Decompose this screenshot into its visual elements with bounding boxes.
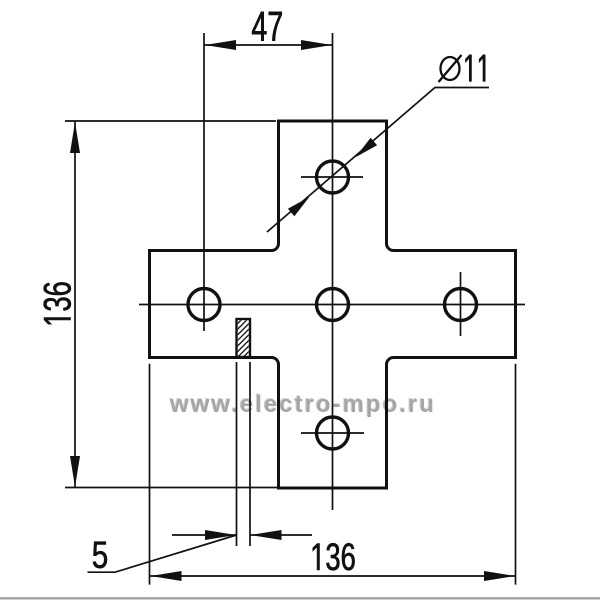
dia symbol: [441, 57, 460, 80]
arrow 47 right: [301, 40, 332, 50]
dimension value 136 vertical: [44, 282, 71, 324]
extension bottom left: [65, 487, 277, 489]
centerline left hole / extension 47: [203, 33, 205, 331]
arrow 136 left bottom: [70, 456, 80, 487]
dim line 47: [204, 44, 333, 46]
extension bottom dim left: [149, 364, 151, 585]
bottom grey border: [0, 597, 600, 599]
arrow 136 bottom left: [151, 571, 182, 581]
arrow 47 left: [205, 40, 236, 50]
centerline horizontal through holes: [139, 304, 525, 306]
extension lines slot 5: [236, 362, 238, 546]
svg-text:www.electro-mpo.ru: www.electro-mpo.ru: [169, 391, 436, 418]
leader dia11: [267, 88, 489, 233]
arrow 5 right: [251, 530, 282, 540]
arrow 136 left top: [70, 122, 80, 153]
arrow 5 left: [205, 530, 236, 540]
arrow dia lower: [288, 197, 310, 216]
centerline top hole: [301, 176, 363, 178]
dimension value 5: [93, 542, 107, 569]
arrow 136 bottom right: [484, 571, 515, 581]
hole center: [317, 289, 349, 321]
extension bottom dim right: [515, 364, 517, 585]
slot hatched: [237, 319, 251, 357]
dim line 136 bottom: [150, 575, 516, 577]
hole right: [445, 289, 477, 321]
dimension value 11: [465, 55, 485, 81]
hole left: [188, 289, 220, 321]
centerline right hole: [460, 272, 462, 336]
leader for 5: [88, 535, 237, 572]
plate outline cross shape: [150, 121, 516, 488]
extension top left: [65, 120, 276, 122]
centerline bottom hole: [301, 432, 364, 434]
dimension value 136 horizontal: [313, 543, 355, 570]
dim line 136 left: [74, 122, 76, 488]
dim 5 tails: [172, 534, 237, 536]
hole top: [317, 161, 349, 193]
centerline vertical main: [332, 33, 334, 510]
hole bottom: [317, 417, 349, 449]
dimension value 47: [252, 12, 282, 41]
arrow dia upper: [356, 138, 378, 157]
